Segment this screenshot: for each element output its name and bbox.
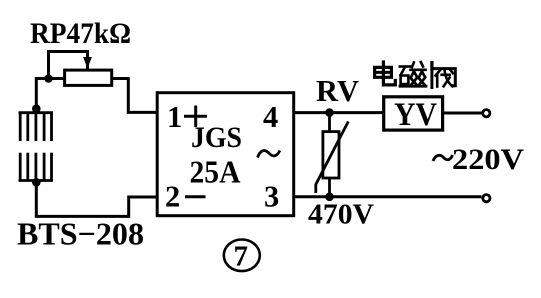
- varistor RV bottom lead: [328, 178, 331, 197]
- varistor RV top lead: [328, 113, 331, 132]
- svg-text:1: 1: [167, 100, 182, 134]
- svg-text:2: 2: [165, 180, 180, 214]
- 磁: [400, 65, 410, 68]
- wire node A to RP left end: [49, 77, 65, 80]
- svg-text:470V: 470V: [308, 200, 374, 231]
- wire JGS pin 4 to YV: [294, 111, 384, 114]
- 电: [383, 62, 395, 85]
- AC tilde inside JGS: [258, 151, 280, 158]
- svg-text:RV: RV: [316, 73, 360, 108]
- wire JGS pin 3 to bottom terminal: [294, 195, 482, 198]
- node B junction dot on BTS top: [32, 104, 41, 113]
- svg-text:4: 4: [263, 100, 278, 134]
- svg-text:RP47kΩ: RP47kΩ: [30, 18, 131, 50]
- resistor RP (potentiometer body): [65, 70, 112, 85]
- node A junction dot: [44, 74, 53, 83]
- svg-text:BTS−208: BTS−208: [17, 216, 144, 252]
- node D junction dot: [325, 108, 334, 117]
- pin 2 minus sign: [185, 195, 206, 198]
- svg-text:YV: YV: [394, 97, 437, 133]
- varistor RV diagonal stroke: [316, 122, 349, 194]
- label 电磁阀 (solenoid valve) : hand-drawn glyphs: [375, 62, 456, 88]
- 阀: [430, 63, 433, 67]
- wire RP right end to JGS pin 1: [112, 79, 158, 113]
- sensor BTS-208 bottom comb: [19, 153, 53, 182]
- solenoid valve YV box: [384, 97, 443, 130]
- wire node A left and down to BTS top: [36, 79, 48, 111]
- wire BTS bottom to JGS pin 2: [36, 182, 157, 216]
- terminal bottom: [483, 195, 490, 202]
- terminal top: [483, 110, 490, 117]
- varistor RV body: [323, 132, 339, 178]
- svg-text:220V: 220V: [452, 144, 524, 176]
- node C junction dot on BTS bottom: [32, 178, 41, 187]
- wire YV to top terminal: [443, 112, 482, 115]
- svg-text:JGS: JGS: [191, 121, 242, 154]
- label ~220V tilde: [433, 155, 453, 161]
- sensor BTS-208 top comb: [19, 112, 53, 142]
- wire wiper loop from node A to arrow: [49, 52, 88, 79]
- pin 1 plus sign: [184, 106, 207, 128]
- node E junction dot: [325, 193, 334, 202]
- svg-text:25A: 25A: [190, 155, 241, 190]
- figure number 7 circle: [224, 240, 260, 272]
- svg-text:7: 7: [234, 241, 249, 273]
- wiper arrow of RP: [84, 58, 91, 68]
- svg-text:3: 3: [264, 180, 279, 214]
- module U1 JGS 25A box: [157, 93, 294, 216]
